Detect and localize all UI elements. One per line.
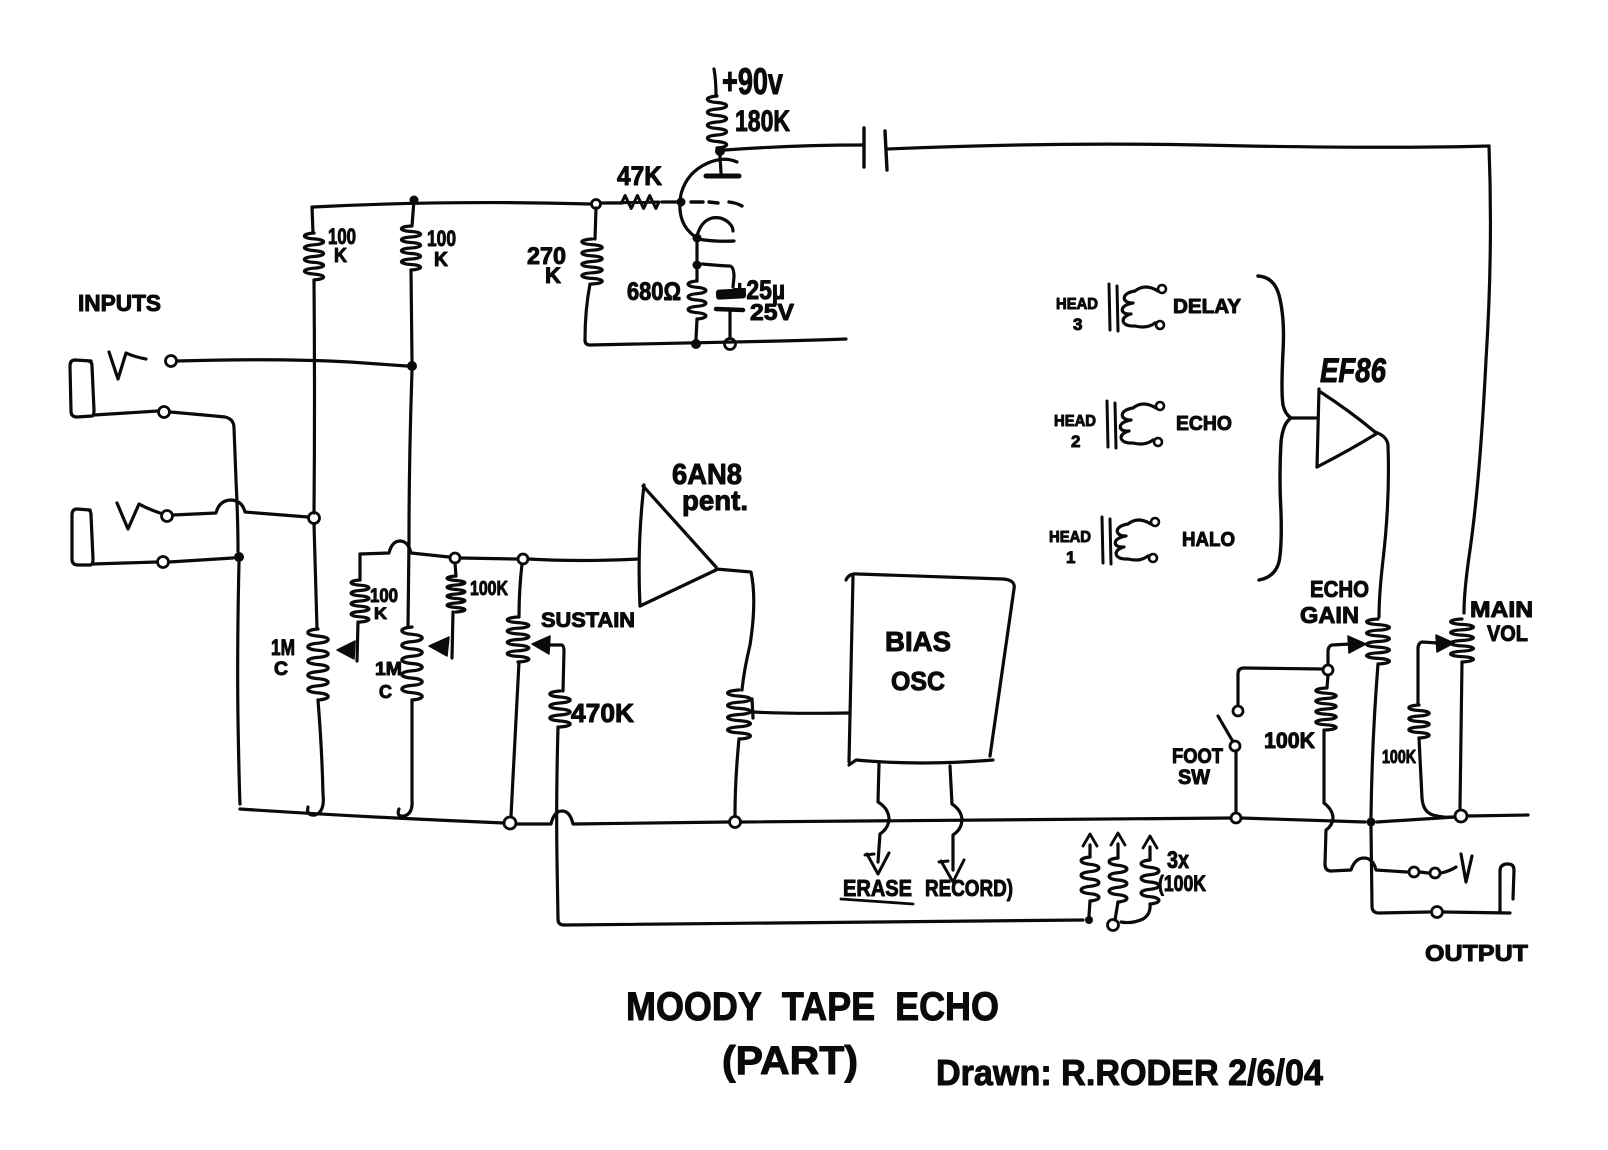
resistor 100K left channel 1 [312,207,313,233]
wire jack1 tip to 100K ch2 chain [177,360,407,366]
brace head mix [1258,276,1291,580]
wire 6AN8 output down to bias pot [716,569,754,690]
wire right rail down to MAIN VOL [1464,146,1490,613]
jack input 1 sleeve terminal [159,407,170,418]
svg-text:HEAD: HEAD [1054,413,1096,430]
resistor 470K [550,691,570,727]
resistor 100K head load 2 [1111,833,1125,845]
node head load return circle [1108,920,1119,931]
svg-text:OSC: OSC [891,666,945,696]
tape head 3 gap bars [1109,284,1110,330]
resistor 100K main feed [1409,705,1429,738]
svg-text:INPUTS: INPUTS [78,290,161,316]
svg-text:680Ω: 680Ω [627,278,681,306]
svg-text:C: C [274,659,288,680]
wire tip junction link [1420,872,1428,873]
svg-text:HEAD: HEAD [1056,296,1098,313]
pot MAIN VOL wiper arrow [1436,635,1454,652]
node cap bottom circle [725,339,736,350]
svg-text:K: K [545,263,561,288]
resistor 47K [605,196,659,209]
tape head 3 coil [1122,287,1158,327]
wire EF86 output down to echo gain pot [1375,432,1388,617]
resistor 100K echo feed [1327,675,1328,688]
jack input 2 sleeve terminal [158,557,169,568]
svg-text:BIAS: BIAS [885,626,951,657]
node sustain bottom bus circle [504,817,516,829]
svg-text:Drawn: R.RODER 2/6/04: Drawn: R.RODER 2/6/04 [936,1052,1323,1093]
tape head 1 gap bars [1102,517,1103,563]
wire cathode lead down [695,242,698,260]
svg-text:FOOT: FOOT [1172,745,1223,768]
node output tip junction circle 1 [1409,867,1419,877]
node bias pot bottom circle [730,817,741,828]
wire foot switch to bus [1234,751,1237,812]
node grid junction [677,198,686,207]
capacitor 25u 25V electrolytic [702,264,734,287]
svg-text:DELAY: DELAY [1173,296,1242,318]
svg-text:SUSTAIN: SUSTAIN [541,609,635,632]
node +90V supply stub [714,69,716,96]
svg-text:470K: 470K [571,698,634,728]
resistor 100K head load 3 [1143,836,1157,848]
svg-text:47K: 47K [617,161,662,191]
node foot switch bus circle [1231,813,1241,823]
svg-text:MAIN: MAIN [1470,597,1533,622]
svg-text:HEAD: HEAD [1049,529,1091,546]
pot SUSTAIN track [519,564,522,617]
tube V1 anode plate [706,174,739,179]
node jack2 tip junction circle [309,513,320,524]
node cathode resistor junction [693,261,702,270]
svg-text:HALO: HALO [1182,529,1235,551]
tape head 1 bottom terminal [1149,554,1157,562]
svg-text:RECORD): RECORD) [925,875,1013,901]
pot bias feed track [728,690,751,739]
tube V1 anode lead [720,156,721,173]
pot ECHO GAIN track [1367,619,1390,664]
svg-text:ECHO: ECHO [1176,413,1232,435]
svg-text:(100K: (100K [1158,871,1206,896]
tube V1 grid lead from 47K [662,200,681,203]
svg-text:(PART): (PART) [722,1039,858,1083]
svg-text:100K: 100K [470,578,508,600]
svg-text:100K: 100K [1382,747,1416,767]
svg-text:3: 3 [1073,315,1082,334]
op-amp 6AN8 pentode triangle [639,485,644,606]
wire 270K bottom to cathode network [585,339,846,345]
tape head 2 gap bars [1107,401,1108,447]
resistor 100K mix b [455,563,456,576]
block BIAS OSC box [846,574,1014,756]
wire sleeve circle to jack body [1443,912,1510,913]
resistor 100K right channel 2 [412,200,414,226]
wire 100K echo feed down with bus hop [1324,730,1407,872]
record arrowhead [941,860,964,882]
jack input 1 tip terminal [166,356,177,367]
wire ground junction down to bottom bus [238,562,240,804]
svg-text:2: 2 [1071,432,1080,451]
node output tip junction circle 2 [1430,868,1440,878]
wire coupling cap to right rail corner [888,144,1489,149]
foot switch bottom contact [1230,741,1240,751]
erase arrowhead [867,853,889,874]
svg-text:+90v: +90v [722,61,783,102]
node 680R bottom junction [691,339,701,349]
capacitor coupling C (top) [862,128,865,167]
wire 470K down to erase/record return bus [558,919,1083,925]
node mix junction 100K b circle [450,553,460,563]
svg-text:VOL: VOL [1487,621,1528,646]
svg-text:OUTPUT: OUTPUT [1425,940,1528,966]
tape head 3 top terminal [1158,285,1166,293]
foot switch top contact [1233,706,1243,716]
wire jack1 body to sleeve terminal [94,411,158,415]
tape head 3 bottom terminal [1156,321,1164,329]
svg-text:K: K [374,604,388,623]
svg-text:MOODY TAPE ECHO: MOODY TAPE ECHO [626,985,999,1029]
svg-text:SW: SW [1178,766,1210,789]
node output sleeve circle [1432,907,1443,918]
wire jack2 tip to pot1 top (hop over sleeve wire) [173,500,308,517]
wire jack2 sleeve to ground dot [169,558,233,562]
node main vol bottom circle [1455,810,1467,822]
tape head 2 coil [1120,404,1156,444]
svg-text:180K: 180K [735,105,790,138]
wire 100K ch2 down to tip1 junction [411,270,412,361]
pot SUSTAIN wiper arrow [532,636,550,654]
jack input 2 tip terminal [162,511,173,522]
node jack1 tip junction [407,361,417,371]
wire anode junction to coupling cap [725,145,862,150]
node echo gain wiper junction circle [1323,665,1333,675]
foot switch lever [1218,716,1232,740]
svg-text:1: 1 [1066,548,1075,567]
svg-text:1M: 1M [271,635,295,660]
pot ECHO GAIN wiper arrow [1348,636,1366,653]
resistor 100K mix a [358,554,361,580]
resistor 180K [707,96,726,148]
wire mix bus to 6AN8 input [528,559,638,561]
pot 1M C channel 1 track [314,524,317,629]
svg-text:25V: 25V [750,299,795,325]
jack output body [1500,864,1514,913]
tape head 2 top terminal [1156,402,1164,410]
svg-text:100: 100 [427,226,456,251]
wire top rail [313,203,591,207]
jack input 1 body [70,360,94,417]
node 100K right top junction [410,196,419,205]
wire 100K ch1 down to jack junction [312,280,316,513]
wire jack2 body to sleeve terminal [93,562,157,564]
tape head 1 coil [1115,520,1151,560]
wire ch2 chain down through signal wire to pot 2 [408,371,412,627]
wire brace to EF86 input [1291,416,1316,419]
svg-text:pent.: pent. [682,485,748,516]
jack output tip contact V [1461,854,1472,882]
node rail-grid junction circle [592,200,601,209]
pot 1M C channel 2 track [402,627,422,700]
wire BIAS record leg with bus hop [950,766,962,870]
wire bias pot wiper to BIAS OSC box [753,712,849,713]
svg-text:K: K [434,249,449,271]
tape head 1 top terminal [1151,518,1159,526]
wire mix bus b to sustain [460,558,517,559]
resistor 680R cathode [695,270,698,281]
node cathode junction [693,234,702,243]
svg-text:K: K [334,245,347,267]
wire BIAS erase leg with bus hop [878,764,889,862]
wire main ground bus [240,809,504,823]
jack input 2 body [72,509,93,565]
svg-text:ECHO: ECHO [1310,576,1369,602]
wire signal mix bus (hop over ch2 chain) [360,541,449,557]
svg-text:EF86: EF86 [1320,352,1387,390]
svg-text:ERASE: ERASE [843,875,912,901]
tube V1 grid dashes [691,200,703,203]
jack input 2 tip contact V [117,503,160,529]
node sustain top circle [518,554,528,564]
svg-text:3x: 3x [1167,847,1190,874]
tube V1 cathode [697,218,733,236]
svg-text:1M: 1M [375,659,402,679]
pot 1M C channel 2 wiper arrow [452,612,453,658]
node anode junction [715,146,725,156]
svg-text:C: C [379,682,392,702]
pot 1M C channel 1 wiper arrow [357,622,358,661]
svg-text:GAIN: GAIN [1300,602,1359,628]
svg-text:100K: 100K [1264,728,1315,753]
pot bias feed wiper tick [752,699,753,718]
resistor 100K head load 1 [1083,834,1097,846]
jack input 1 tip contact V [109,352,146,379]
wire to output tip contact [1441,867,1456,873]
wire jack1 sleeve down to ground dot [170,412,238,551]
node ground junction dot [234,552,244,562]
pot MAIN VOL track [1451,619,1474,662]
resistor 270K [595,208,596,239]
op-amp EF86 triangle [1317,389,1319,467]
wire echo gain pot to output sleeve [1371,827,1429,913]
node echo gain bottom dot [1367,818,1376,827]
wire wiper junction to foot switch [1238,668,1323,705]
tape head 2 bottom terminal [1154,438,1162,446]
tube V1 envelope [680,159,737,238]
